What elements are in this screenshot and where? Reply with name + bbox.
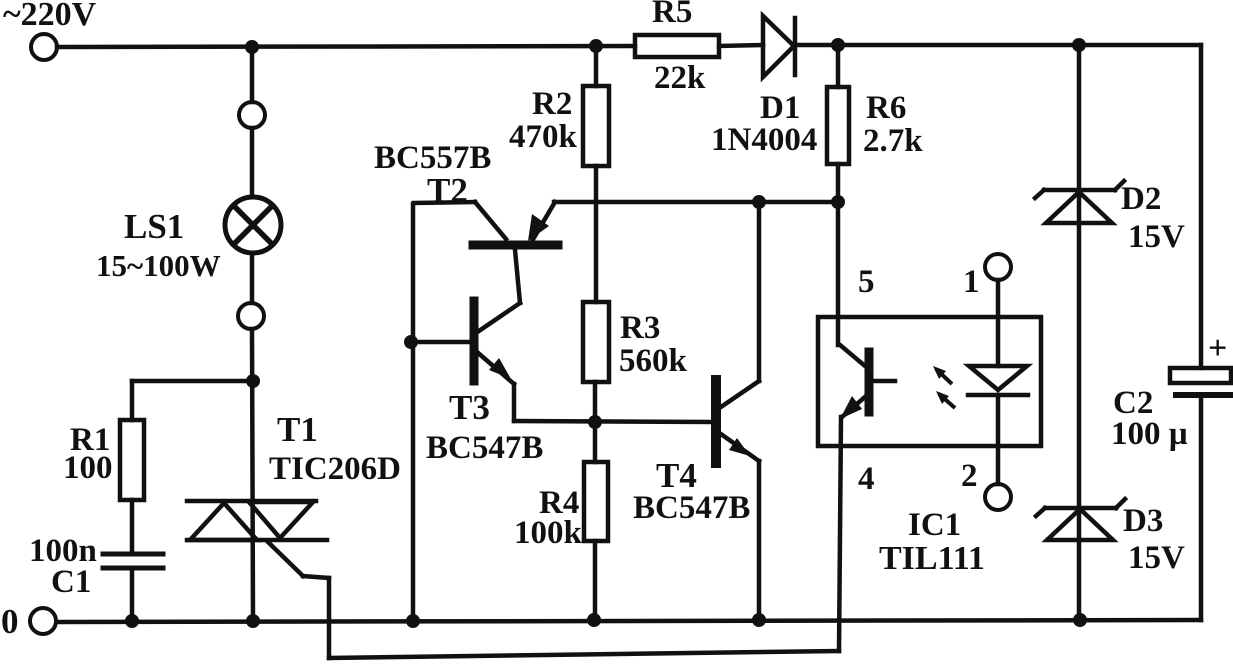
svg-text:D3: D3 [1123,503,1163,539]
svg-text:1N4004: 1N4004 [711,122,817,158]
svg-text:R2: R2 [532,86,572,122]
svg-text:IC1: IC1 [908,507,961,543]
svg-text:0: 0 [1,602,19,641]
svg-text:15V: 15V [1128,540,1185,576]
svg-text:~220V: ~220V [3,0,97,33]
svg-text:15V: 15V [1128,219,1185,255]
svg-text:T3: T3 [449,388,490,427]
svg-text:100k: 100k [514,515,583,551]
svg-text:TIC206D: TIC206D [269,451,401,487]
svg-text:D1: D1 [760,90,800,126]
svg-text:2.7k: 2.7k [863,123,923,159]
svg-text:560k: 560k [619,343,688,379]
svg-text:2: 2 [961,458,978,494]
svg-text:T1: T1 [277,410,318,449]
svg-text:470k: 470k [509,119,578,155]
svg-text:D2: D2 [1121,181,1161,217]
svg-text:+: + [1208,330,1227,367]
svg-text:5: 5 [858,264,875,300]
svg-text:100 µ: 100 µ [1111,416,1188,452]
svg-text:R3: R3 [620,310,660,346]
svg-text:R5: R5 [652,0,692,30]
svg-text:BC547B: BC547B [426,430,543,466]
svg-text:R6: R6 [866,90,906,126]
svg-text:22k: 22k [654,60,706,96]
svg-text:LS1: LS1 [124,207,184,246]
svg-text:4: 4 [858,461,875,497]
svg-text:T2: T2 [427,171,468,210]
svg-text:C1: C1 [51,564,91,600]
svg-text:15~100W: 15~100W [96,248,221,283]
svg-text:100: 100 [63,450,113,486]
svg-text:TIL111: TIL111 [879,540,985,577]
svg-text:1: 1 [963,264,980,300]
svg-text:BC547B: BC547B [633,490,750,526]
